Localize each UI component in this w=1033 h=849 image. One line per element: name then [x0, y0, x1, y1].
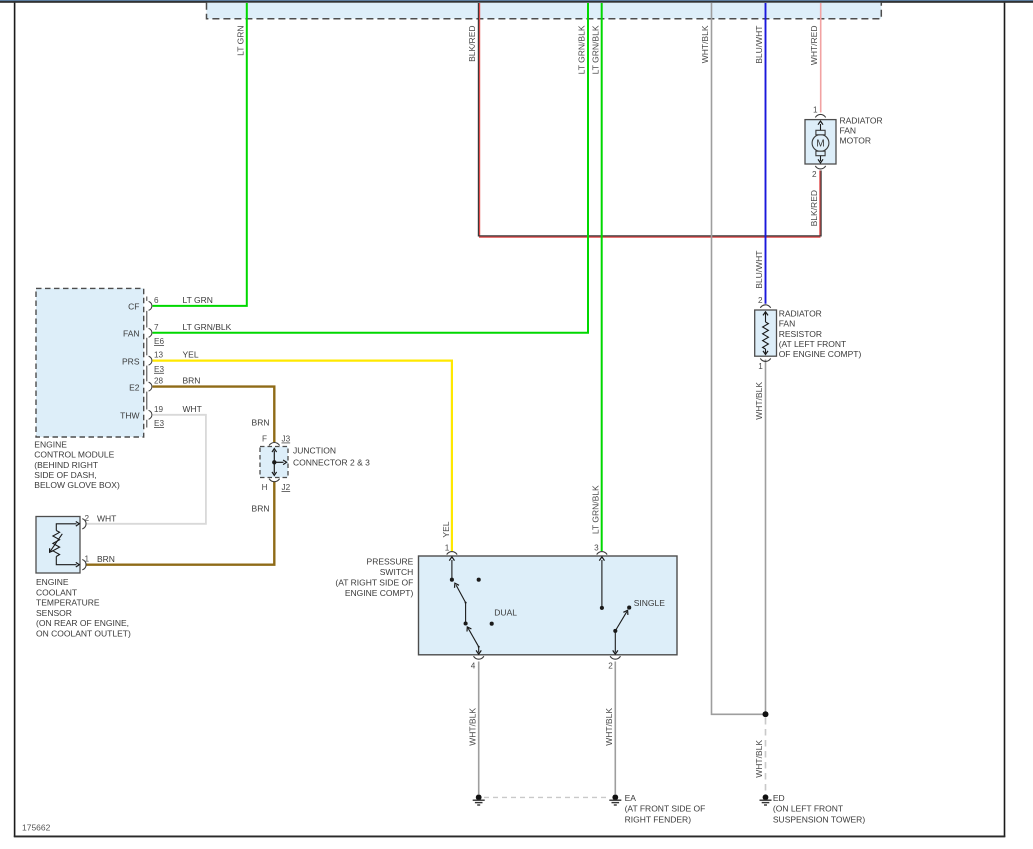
- svg-text:BRN: BRN: [97, 554, 115, 564]
- wire WHT/BLK (top box to junction near resistor): [712, 3, 764, 714]
- svg-text:BELOW GLOVE BOX): BELOW GLOVE BOX): [34, 480, 120, 490]
- wire WHT/RED (top box to motor pin 1): [820, 3, 822, 113]
- svg-text:2: 2: [758, 296, 763, 305]
- svg-text:ENGINE: ENGINE: [34, 439, 67, 449]
- svg-text:COOLANT: COOLANT: [36, 587, 77, 597]
- svg-text:F: F: [262, 435, 267, 444]
- svg-text:1: 1: [85, 555, 90, 564]
- wire BLK/RED black part: [478, 3, 821, 236]
- motor pin arcs: [815, 114, 825, 117]
- svg-text:SUSPENSION TOWER): SUSPENSION TOWER): [773, 814, 865, 824]
- svg-text:WHT: WHT: [183, 404, 202, 414]
- svg-text:PRESSURE: PRESSURE: [367, 556, 414, 566]
- svg-text:2: 2: [608, 662, 613, 671]
- svg-text:MOTOR: MOTOR: [840, 136, 871, 146]
- svg-text:175662: 175662: [22, 823, 51, 833]
- svg-text:1: 1: [445, 543, 450, 552]
- svg-text:LT GRN: LT GRN: [183, 295, 213, 305]
- svg-text:E6: E6: [154, 337, 164, 346]
- resistor pin arcs: [760, 305, 770, 308]
- svg-text:(ON LEFT FRONT: (ON LEFT FRONT: [773, 804, 843, 814]
- ECM box: [36, 288, 144, 437]
- junction connector J2/J3: [260, 443, 288, 482]
- svg-text:OF ENGINE COMPT): OF ENGINE COMPT): [779, 349, 862, 359]
- ground ED: [760, 794, 772, 805]
- svg-text:SIDE OF DASH,: SIDE OF DASH,: [34, 470, 96, 480]
- svg-text:TEMPERATURE: TEMPERATURE: [36, 598, 100, 608]
- svg-text:SENSOR: SENSOR: [36, 608, 72, 618]
- svg-text:THW: THW: [120, 411, 139, 421]
- svg-text:2: 2: [85, 514, 90, 523]
- svg-text:(AT RIGHT SIDE OF: (AT RIGHT SIDE OF: [335, 578, 413, 588]
- svg-text:RADIATOR: RADIATOR: [840, 116, 883, 126]
- svg-text:LT GRN/BLK: LT GRN/BLK: [183, 322, 232, 332]
- dashed ground link EA: [484, 796, 610, 798]
- svg-text:CONNECTOR 2 & 3: CONNECTOR 2 & 3: [293, 458, 370, 468]
- svg-text:(AT LEFT FRONT: (AT LEFT FRONT: [779, 339, 847, 349]
- svg-text:ENGINE COMPT): ENGINE COMPT): [345, 588, 414, 598]
- ground EA (switch pin 2): [609, 794, 621, 805]
- svg-text:E3: E3: [154, 365, 164, 374]
- svg-text:WHT/RED: WHT/RED: [809, 26, 819, 66]
- svg-text:EA: EA: [625, 793, 637, 803]
- svg-text:M: M: [816, 139, 824, 150]
- svg-text:13: 13: [154, 351, 164, 360]
- svg-text:WHT/BLK: WHT/BLK: [754, 740, 764, 778]
- svg-text:RADIATOR: RADIATOR: [779, 308, 822, 318]
- radiator fan resistor: [755, 305, 777, 362]
- engine coolant temperature sensor: [36, 517, 86, 574]
- single switch: [602, 560, 627, 653]
- svg-text:WHT/BLK: WHT/BLK: [467, 708, 477, 746]
- junction dot: [763, 711, 769, 717]
- sensor pin arcs: [82, 519, 86, 529]
- ECM pin connectors: [147, 297, 152, 428]
- svg-text:WHT/BLK: WHT/BLK: [754, 382, 764, 420]
- svg-text:SINGLE: SINGLE: [634, 598, 666, 608]
- svg-text:SWITCH: SWITCH: [380, 567, 414, 577]
- svg-text:LT GRN/BLK: LT GRN/BLK: [591, 485, 601, 534]
- wire WHT (ECM pin 19 to coolant sensor pin 2): [87, 415, 206, 524]
- wire YEL (ECM pin 13 to pressure switch pin 1): [153, 361, 452, 551]
- svg-text:E3: E3: [154, 419, 164, 428]
- svg-text:BLK/RED: BLK/RED: [809, 190, 819, 226]
- svg-text:RESISTOR: RESISTOR: [779, 329, 822, 339]
- frame left: [14, 3, 16, 837]
- svg-text:2: 2: [812, 170, 817, 179]
- svg-text:ON COOLANT OUTLET): ON COOLANT OUTLET): [36, 629, 131, 639]
- top frame line: [0, 1, 1033, 3]
- svg-text:WHT/BLK: WHT/BLK: [700, 25, 710, 63]
- svg-text:1: 1: [813, 106, 818, 115]
- svg-text:RIGHT FENDER): RIGHT FENDER): [625, 814, 692, 824]
- svg-text:6: 6: [154, 296, 159, 305]
- svg-text:BRN: BRN: [252, 504, 270, 514]
- ground G1 (switch pin 4): [473, 794, 485, 805]
- svg-text:PRS: PRS: [122, 356, 140, 366]
- frame bottom: [14, 836, 1006, 838]
- svg-text:LT GRN/BLK: LT GRN/BLK: [590, 25, 600, 74]
- wire BRN (ECM pin 28 to junction connector pin F): [153, 387, 275, 442]
- svg-text:ENGINE: ENGINE: [36, 577, 69, 587]
- svg-text:3: 3: [594, 543, 599, 552]
- frame right: [1004, 3, 1006, 837]
- svg-text:(AT FRONT SIDE OF: (AT FRONT SIDE OF: [625, 804, 706, 814]
- wire LT GRN (ECM pin 6 to top box): [153, 3, 247, 306]
- svg-text:1: 1: [758, 362, 763, 371]
- wire WHT/BLK (pressure switch pin 4 to ground): [478, 662, 480, 795]
- svg-text:BLU/WHT: BLU/WHT: [754, 26, 764, 64]
- svg-text:WHT/BLK: WHT/BLK: [604, 708, 614, 746]
- top blue-gray bar: [0, 0, 1033, 1]
- svg-text:FAN: FAN: [840, 126, 857, 136]
- wire LT GRN/BLK (ECM pin 7 to top box): [153, 3, 589, 333]
- svg-text:4: 4: [471, 662, 476, 671]
- wire BLK/RED red part (top box to motor pin 2): [480, 3, 820, 237]
- svg-text:DUAL: DUAL: [494, 608, 517, 618]
- wire WHT/BLK (pressure switch pin 2 to ground): [614, 662, 616, 795]
- svg-text:WHT: WHT: [97, 513, 116, 523]
- radiator fan motor: [805, 114, 836, 168]
- svg-text:YEL: YEL: [441, 521, 451, 537]
- top arc pin F: [269, 443, 280, 446]
- wire BLU/WHT (top box to resistor pin 2): [765, 3, 767, 304]
- top module box (cut off): [207, 3, 882, 19]
- svg-text:28: 28: [154, 377, 164, 386]
- svg-text:E2: E2: [129, 382, 140, 392]
- svg-text:ED: ED: [773, 793, 785, 803]
- wire WHT/BLK dashed (junction dot to ground ED): [765, 718, 767, 794]
- pressure switch pin arcs: [447, 552, 621, 660]
- svg-text:BRN: BRN: [252, 418, 270, 428]
- svg-text:J3: J3: [282, 435, 291, 444]
- svg-text:FAN: FAN: [779, 319, 796, 329]
- wire WHT/BLK (resistor pin 1 down to junction dot): [765, 360, 767, 715]
- svg-text:J2: J2: [282, 483, 291, 492]
- svg-text:JUNCTION: JUNCTION: [293, 446, 336, 456]
- svg-text:H: H: [262, 483, 268, 492]
- svg-text:BRN: BRN: [183, 376, 201, 386]
- svg-text:(BEHIND RIGHT: (BEHIND RIGHT: [34, 460, 98, 470]
- svg-text:FAN: FAN: [123, 329, 140, 339]
- svg-text:LT GRN/BLK: LT GRN/BLK: [577, 25, 587, 74]
- dual switch: [452, 560, 479, 653]
- bottom arc pin H: [269, 479, 280, 482]
- pressure switch: [419, 556, 678, 655]
- svg-text:19: 19: [154, 405, 164, 414]
- svg-text:(ON REAR OF ENGINE,: (ON REAR OF ENGINE,: [36, 618, 129, 628]
- svg-text:BLK/RED: BLK/RED: [467, 26, 477, 62]
- svg-text:YEL: YEL: [183, 350, 199, 360]
- svg-text:7: 7: [154, 323, 159, 332]
- wire BRN (junction connector pin H to coolant sensor pin 1): [87, 482, 275, 565]
- wire LT GRN/BLK (top box to pressure switch pin 3): [601, 3, 603, 551]
- svg-text:CF: CF: [128, 302, 139, 312]
- svg-text:LT GRN: LT GRN: [236, 26, 246, 56]
- svg-text:BLU/WHT: BLU/WHT: [754, 251, 764, 289]
- svg-text:CONTROL MODULE: CONTROL MODULE: [34, 450, 114, 460]
